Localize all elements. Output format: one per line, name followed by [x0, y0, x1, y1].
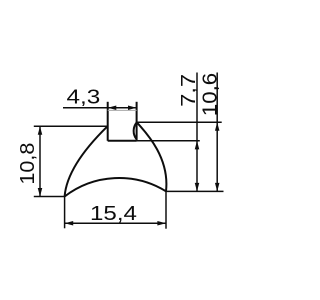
small arc behind tab right edge [134, 122, 137, 139]
tab right side [136, 102, 138, 141]
arrow 10,6 bottom [215, 183, 220, 192]
dimension line 7,7 [196, 73, 198, 192]
extension line right upper (10,6 top ref) [137, 121, 222, 123]
dimension line 15,4 [65, 222, 166, 224]
extension line 15,4 left [64, 197, 66, 229]
svg-text:15,4: 15,4 [90, 203, 137, 225]
arrow 15,4 left [65, 221, 74, 226]
extension line 15,4 right [165, 191, 167, 228]
outline bottom arc [65, 178, 166, 196]
arrow 15,4 right [157, 221, 166, 226]
dimension line 10,6 [216, 73, 218, 192]
svg-text:4,3: 4,3 [67, 86, 101, 108]
arrow 10,6 top [215, 122, 220, 131]
dimension line 10,8 [39, 126, 41, 196]
svg-text:10,6: 10,6 [200, 73, 222, 116]
tab left side [107, 102, 109, 141]
arrow 10,8 bottom [38, 188, 43, 197]
extension line left top (10,8 top ref) [34, 125, 108, 127]
tab bottom edge [108, 140, 137, 142]
extension line right middle (7,7 top ref) [137, 140, 200, 142]
outline left side curve [65, 126, 108, 196]
tab top edge [108, 109, 137, 111]
dimension line 4,3 with leader [63, 107, 136, 109]
svg-text:7,7: 7,7 [178, 74, 200, 107]
arrow 4,3 left [108, 106, 117, 111]
outline right side curve [137, 122, 167, 191]
svg-text:10,8: 10,8 [17, 143, 39, 185]
arrow 7,7 top [195, 141, 200, 150]
arrow 10,8 top [38, 126, 43, 135]
extension line right bottom [166, 190, 224, 192]
arrow 4,3 right [128, 106, 137, 111]
arrow 7,7 bottom [195, 183, 200, 192]
extension line left bottom [34, 196, 65, 198]
